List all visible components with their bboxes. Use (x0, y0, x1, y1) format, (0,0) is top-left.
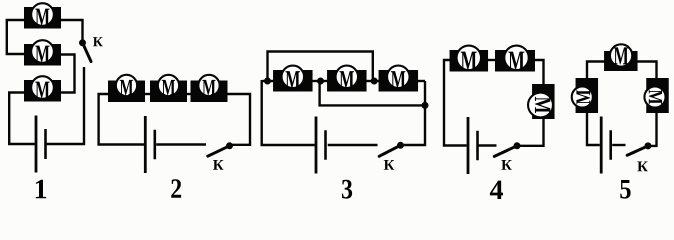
motor M11 (circuit 4) (495, 46, 535, 72)
wire: motor M10 to motor M11 (488, 59, 496, 61)
battery GB1 long plate (35, 116, 38, 173)
wire: right rail down through node D to switch K pivot (403, 81, 425, 145)
wire: left side from motor M4 down to battery (99, 94, 144, 145)
motor M10 (circuit 4) (450, 46, 489, 72)
switch K4 pivot dot (514, 142, 521, 149)
wire: left side from motor M10 down to battery (444, 60, 467, 146)
junction dot node A (264, 78, 271, 85)
switch K4 blade (open) (494, 146, 517, 157)
switch K3 blade (open) (379, 145, 400, 156)
circuit 5: motor on top, motors in both side branches, battery and switch K below (572, 44, 669, 198)
wire: right side from motor M6 down to switch K pivot (227, 94, 250, 145)
motor M14 (circuit 5) (572, 78, 598, 113)
circuit 1: three motors, parallel group, switch K at top right (7, 3, 103, 198)
switch K5 blade (open) (627, 146, 648, 155)
wire: battery to switch K fixed contact (612, 144, 625, 146)
motor M12 (circuit 4) (528, 84, 555, 119)
switch K2 pivot dot (226, 142, 233, 149)
wire: battery to switch K fixed contact (478, 144, 496, 146)
battery GB3 long plate (315, 117, 318, 174)
wire: motor M3 left terminal down to bottom rail (9, 93, 35, 145)
battery GB3 short plate (324, 130, 327, 160)
battery GB5 long plate (600, 117, 603, 174)
wire: motor M4 to motor M5 (145, 93, 151, 95)
wire: motor M7 to motor M8 (node B) (312, 80, 328, 82)
switch K5 pivot dot (645, 142, 652, 149)
battery GB1 short plate (44, 129, 47, 159)
label 5 (circuit number) (620, 180, 630, 199)
label К (switch, circuit 4) (501, 160, 511, 170)
wire: left loop joining motor M1 and motor M2 left terminals (7, 20, 25, 54)
motor M4 (circuit 2) (108, 75, 145, 102)
motor M5 (circuit 2) (150, 75, 187, 102)
wire: link joining motor M2 and motor M3 right terminals (61, 55, 75, 93)
label 1 (circuit number) (36, 180, 46, 198)
circuit 3: three motors in series with two bypass wires, junction dots (262, 52, 429, 199)
wire: vertical motor M12 down to switch K pivot (520, 118, 544, 146)
wire: motor M8 to motor M9 (node C) (366, 80, 379, 82)
motor M2 (circuit 1) (24, 40, 61, 65)
junction dot node D (422, 102, 429, 109)
battery GB2 short plate (154, 130, 157, 160)
label 3 (circuit number) (342, 180, 352, 199)
motor M8 (circuit 3) (327, 66, 367, 92)
wire: battery to switch K fixed contact (328, 144, 378, 146)
battery GB5 short plate (609, 130, 612, 160)
wire: battery to switch K fixed contact (156, 143, 206, 145)
switch K1 blade (open) (83, 43, 92, 62)
motor M15 (circuit 5) (644, 78, 668, 113)
switch K2 blade (open) (208, 146, 230, 156)
label К (switch, circuit 2) (213, 160, 223, 170)
circuit 2: three motors in series, battery and switch K in bottom rail (99, 75, 250, 198)
label К (switch, circuit 3) (384, 160, 394, 170)
wire: top motor M13 right to right branch (637, 62, 657, 79)
junction dot node C (371, 78, 378, 85)
wire: motor M5 to motor M6 (187, 93, 192, 95)
motor M1 (circuit 1) (24, 3, 61, 28)
switch K1 pivot dot (79, 39, 86, 46)
motor M13 (circuit 5) (604, 44, 638, 71)
wire: left motor M14 down to battery (587, 113, 600, 146)
motor M9 (circuit 3) (379, 66, 419, 92)
circuit 4: two motors in series on top, third motor in right branch (444, 46, 555, 199)
wire: node A to motor M7 left terminal (262, 80, 274, 82)
junction dot node B (317, 78, 324, 85)
motor M3 (circuit 1) (24, 76, 61, 101)
label 4 (circuit number) (490, 181, 503, 199)
label К (switch, circuit 1) (93, 37, 103, 46)
battery GB4 short plate (476, 131, 479, 161)
wire: motor M11 right terminal to right rail (535, 60, 544, 85)
battery GB2 long plate (144, 116, 147, 173)
wire: lower bypass from node B down and right to node D (320, 81, 425, 105)
wire: top bypass from node A over motors to node C (268, 52, 373, 82)
wire: right motor M15 down to switch K pivot (648, 113, 657, 146)
label К (switch, circuit 5) (637, 161, 647, 171)
motor M6 (circuit 2) (191, 75, 228, 102)
wire: motor M9 right terminal to right rail (418, 80, 426, 82)
wire: left side down from node A to battery (262, 80, 315, 145)
wire: top motor M13 left to left branch (587, 62, 605, 79)
battery GB4 long plate (467, 117, 470, 174)
switch K3 pivot dot (397, 142, 404, 149)
wire: switch K lower contact down to bottom rail (47, 67, 85, 144)
motor M7 (circuit 3) (273, 66, 313, 92)
label 2 (circuit number) (171, 179, 181, 198)
wire: motor M1 right terminal to switch K top feed (61, 20, 83, 40)
